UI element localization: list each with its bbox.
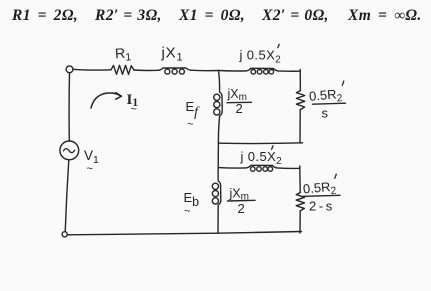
inductor j0.5X2' (lower): [246, 165, 277, 168]
label 0.5R2'/(2-s): [302, 179, 337, 214]
wire right edge lower loop (bottom part): [299, 211, 301, 233]
wire source down to bottom-left corner: [65, 160, 69, 232]
wire right edge upper loop (top part): [299, 70, 301, 91]
current arrow I1: [91, 93, 121, 108]
label jXm/2 (lower): [229, 187, 249, 217]
label Ef: [186, 99, 201, 131]
wire jX1 to node B: [191, 69, 219, 71]
parameter caption line: [0, 7, 431, 25]
resistor 0.5R2'/(2-s): [296, 193, 304, 211]
wire R1 to jX1: [134, 69, 158, 71]
svg-text:2: 2: [238, 201, 245, 216]
wire bottom rail: [67, 232, 302, 235]
wire left vertical between loops: [218, 116, 219, 168]
node corner loop bottom-left: [62, 232, 67, 237]
wire top edge bottom loop (right part): [277, 167, 300, 169]
label Eb: [184, 190, 200, 218]
wire top edge bottom loop (left part): [218, 167, 246, 169]
svg-text:R1: R1: [114, 44, 131, 64]
label jXm/2 (upper): [227, 87, 247, 116]
wire left vertical: node B down to upper jXm coil: [219, 71, 220, 93]
svg-text:~: ~: [187, 119, 193, 131]
svg-text:j 0.5X2: j 0.5X2: [240, 149, 283, 167]
svg-text:2: 2: [236, 101, 243, 116]
inductor j0.5X2' (upper): [246, 68, 278, 71]
inductor jXm/2 (upper): [220, 92, 223, 116]
node A (top-left input terminal): [66, 66, 73, 73]
svg-text:Ef: Ef: [186, 99, 201, 120]
wire right edge upper loop (bottom part): [299, 110, 301, 144]
resistor R1: [111, 65, 134, 74]
wire coil to top-right corner: [278, 70, 300, 72]
svg-text:s: s: [322, 106, 329, 121]
inductor jXm/2 (lower): [218, 181, 221, 205]
label 0.5R2'/s: [308, 86, 343, 120]
label I1: [127, 92, 139, 116]
wire bottom edge of upper loop: [219, 142, 303, 145]
svg-text:~: ~: [131, 104, 137, 116]
svg-text:2 - s: 2 - s: [309, 199, 333, 214]
svg-text:~: ~: [184, 206, 190, 218]
inductor jX1: [158, 68, 191, 70]
label V1: [84, 148, 99, 175]
node B junction / wire to upper cage coil: [219, 70, 247, 72]
wire right edge lower loop (top part): [299, 166, 301, 193]
svg-text:j 0.5X2: j 0.5X2: [239, 48, 282, 66]
source V1: [60, 141, 79, 160]
wire top-left terminal down to source: [68, 73, 70, 141]
wire top-left to R1: [73, 68, 111, 71]
wire left vertical coil to bottom wire: [217, 205, 219, 233]
svg-text:jX1: jX1: [161, 45, 184, 64]
svg-text:~: ~: [87, 163, 93, 175]
resistor 0.5R2'/s: [296, 91, 304, 110]
wire left vertical down to lower jXm coil: [217, 168, 219, 181]
